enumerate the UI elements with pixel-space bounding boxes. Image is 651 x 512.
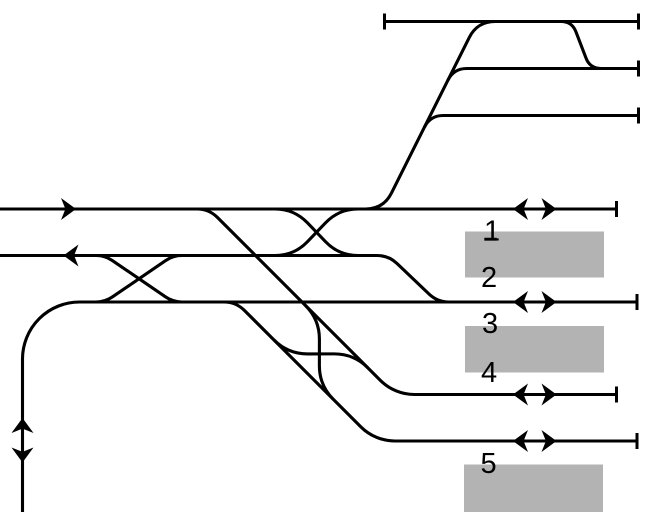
- link between diagonals (steep, upper to lower): [306, 306, 334, 400]
- arrow east on track 3 (bidirectional pair): [542, 291, 557, 313]
- arrow east on track 5 (bidirectional pair): [542, 430, 557, 452]
- crossover track 2 to track 3 (left, descending): [96, 256, 182, 303]
- platform between tracks 1 and 2: [465, 232, 604, 278]
- svg-text:5: 5: [481, 448, 497, 480]
- buffer bar track B right: [637, 61, 640, 77]
- crossover track 2 to track 1 (ascending): [275, 209, 358, 256]
- arrow north on south line: [12, 418, 34, 433]
- end bar track 3: [636, 294, 639, 310]
- end bar track 5: [636, 433, 639, 449]
- svg-text:4: 4: [481, 357, 497, 389]
- buffer bar track C right: [637, 108, 640, 124]
- end bar track 1: [615, 201, 618, 217]
- platform between tracks 3 and 4: [465, 326, 604, 373]
- arrow east on track 1 (bidirectional pair): [542, 198, 557, 220]
- arrow west on track 2: [64, 245, 79, 267]
- svg-text:2: 2: [481, 262, 497, 294]
- south line (vertical) curving into track 3: [23, 302, 638, 512]
- arrow west on track 5 (bidirectional pair): [513, 430, 528, 452]
- arrow west on track 1 (bidirectional pair): [513, 198, 528, 220]
- crossover track 1 to track 2 (descending): [275, 209, 358, 256]
- arrow west on track 3 (bidirectional pair): [513, 291, 528, 313]
- arrow south on south line: [12, 448, 34, 463]
- siding track B (branch off diagonal): [448, 69, 639, 81]
- diagonal track 3 to track 5: [224, 302, 637, 441]
- connection track A down to track B (right): [561, 22, 601, 69]
- arrow east on track 1: [61, 198, 76, 220]
- end bar track 4: [615, 387, 618, 403]
- arrow east on track 4 (bidirectional pair): [542, 384, 557, 406]
- track 2 (main line west) with link down to track 3: [0, 256, 449, 303]
- svg-text:1: 1: [484, 216, 500, 248]
- siding track A (top): [385, 20, 639, 23]
- diagonal track 1 to track 4: [197, 209, 617, 395]
- label track number 1 foot serif: [484, 238, 496, 241]
- buffer bar track A right: [637, 14, 640, 30]
- arrow west on track 4 (bidirectional pair): [513, 384, 528, 406]
- buffer bar track A left: [383, 14, 386, 30]
- crossover track 3 to track 2 (left, ascending): [96, 256, 182, 303]
- svg-text:3: 3: [482, 308, 498, 340]
- siding track C (branch off diagonal): [424, 116, 638, 128]
- yard lead diagonal (track 1 to sidings): [366, 22, 496, 210]
- track 1 (main line east): [0, 207, 617, 210]
- link between diagonals (shallow, lower to upper): [274, 340, 368, 368]
- platform at track 5: [464, 465, 603, 512]
